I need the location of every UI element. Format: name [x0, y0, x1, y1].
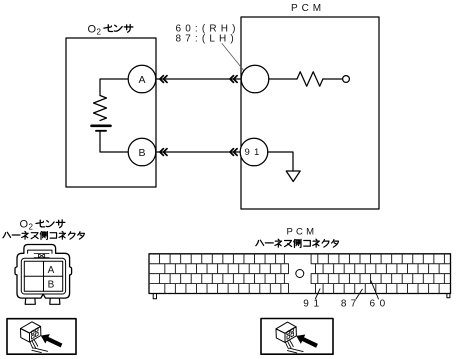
connector arrows on wire B (double chevron near B) — [160, 149, 167, 156]
svg-text:87: 87 — [341, 299, 361, 310]
connector arrows on wire A (double chevron near A) — [160, 76, 167, 83]
svg-text:B: B — [48, 280, 55, 291]
pin 60 callout — [370, 281, 390, 310]
index hole (circle) in strip — [296, 270, 304, 278]
wire pin A to resistor branch — [100, 79, 128, 96]
svg-text:PCM: PCM — [291, 3, 325, 14]
wire resistor to terminal — [323, 78, 343, 80]
connector pin 91 (circle) — [240, 138, 268, 166]
PCM harness connector strip (pin grid) — [149, 254, 451, 299]
inspection icon box (right) — [261, 319, 333, 355]
connector arrows on wire B (double chevron near 91) — [230, 149, 237, 156]
wire B to PCM pin 91 — [156, 151, 241, 153]
pin 91 callout — [303, 289, 323, 310]
svg-text:O: O — [20, 219, 29, 231]
svg-text:B: B — [138, 147, 145, 159]
svg-text:2: 2 — [97, 27, 102, 36]
strip feet — [153, 294, 450, 299]
PCM box — [241, 17, 379, 209]
pin label 60:(RH) 87:(LH) — [176, 24, 240, 45]
O2 sensor harness connector drawing — [15, 245, 72, 305]
connector pin A (circle) — [128, 65, 156, 93]
connector pin 60/87 (circle) — [241, 65, 269, 93]
resistor R (sensor heater zigzag) — [94, 96, 107, 121]
inspection icon box (left) — [7, 319, 76, 355]
open terminal (small circle) — [343, 76, 350, 83]
svg-text:91: 91 — [303, 299, 323, 310]
svg-text:2: 2 — [29, 223, 34, 232]
wire pin 91 to ground — [268, 152, 293, 171]
label O2 sensor harness-side connector (O2センサ / ハーネス側コネクタ) — [3, 219, 84, 240]
svg-text:91: 91 — [245, 147, 264, 158]
inspection icon: connector with probe arrow (left) — [21, 322, 63, 353]
connector arrows on wire A (double chevron near PCM) — [230, 76, 237, 83]
leader line from label to pin 60/87 — [222, 44, 247, 75]
label O2 sensor (O2センサ) — [88, 23, 133, 36]
inspection icon: connector with probe arrow (right) — [276, 322, 318, 353]
connector pin B (circle) — [128, 138, 156, 166]
wire pin to resistor — [269, 78, 297, 80]
svg-text:60: 60 — [370, 299, 390, 310]
O2 sensor box — [66, 38, 156, 187]
label PCM harness-side connector (PCM / ハーネス側コネクタ) — [256, 227, 339, 248]
svg-text:A: A — [138, 74, 145, 86]
ground symbol (open triangle) — [286, 171, 300, 182]
resistor in PCM (zigzag) — [297, 72, 323, 86]
wire cell to pin B — [100, 131, 128, 152]
battery plates (sensor cell) — [92, 126, 111, 131]
pin 87 callout — [341, 289, 362, 309]
svg-text:PCM: PCM — [287, 227, 318, 238]
svg-text:O: O — [88, 23, 97, 35]
wire A to PCM pin 60/87 — [156, 78, 241, 80]
svg-text:A: A — [48, 265, 55, 276]
svg-text:87:(LH): 87:(LH) — [176, 33, 238, 44]
